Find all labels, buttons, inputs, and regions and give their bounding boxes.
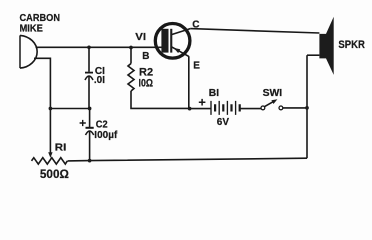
svg-text:VI: VI bbox=[135, 32, 146, 43]
svg-text:6V: 6V bbox=[217, 117, 230, 128]
svg-text:B: B bbox=[142, 51, 149, 62]
svg-text:I0Ω: I0Ω bbox=[139, 77, 154, 89]
svg-text:E: E bbox=[193, 61, 200, 72]
svg-text:BI: BI bbox=[209, 88, 220, 99]
svg-text:SWI: SWI bbox=[263, 88, 283, 99]
svg-text:CARBON: CARBON bbox=[20, 13, 61, 24]
svg-text:MIKE: MIKE bbox=[20, 23, 44, 34]
svg-text:.0I: .0I bbox=[94, 75, 105, 86]
svg-text:500Ω: 500Ω bbox=[40, 167, 69, 181]
svg-text:C: C bbox=[192, 20, 199, 31]
svg-text:I00µf: I00µf bbox=[94, 130, 118, 141]
svg-text:RI: RI bbox=[55, 143, 67, 154]
svg-text:SPKR: SPKR bbox=[338, 39, 365, 51]
svg-text:C2: C2 bbox=[96, 119, 108, 130]
